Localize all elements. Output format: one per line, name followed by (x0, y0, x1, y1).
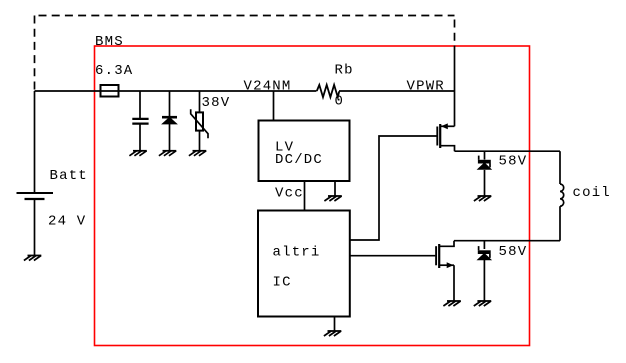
inductor L1 coil (560, 151, 564, 241)
capacitor C1 wire top (139, 91, 141, 118)
wire altri ground pin (334, 317, 336, 332)
zener diode D3 wire bottom (483, 259, 485, 301)
svg-text:58V: 58V (499, 154, 528, 170)
wire VPWR vertical (454, 46, 456, 127)
svg-text:38V: 38V (202, 95, 231, 111)
ground capacitor (129, 151, 146, 156)
wire Vcc pin (304, 181, 306, 211)
ground Q2 source (443, 301, 460, 306)
transistor Q2 (N-MOSFET) (436, 241, 454, 268)
zener diode D3 wire top (483, 241, 485, 249)
svg-text:VPWR: VPWR (407, 79, 445, 95)
ground varistor (189, 151, 206, 156)
transistor Q1 (P-MOSFET) (437, 123, 454, 151)
fuse F1 (101, 85, 119, 97)
ground LV DC/DC (324, 196, 341, 201)
BMS boundary box (95, 46, 530, 346)
svg-text:Rb: Rb (335, 63, 354, 79)
wire Q1 drain to coil node (455, 150, 561, 152)
IC box U2 altri IC (258, 211, 350, 317)
op-amp box U1 LV DC/DC (259, 121, 350, 182)
capacitor C1 wire bottom (139, 124, 141, 151)
diode D1 wire top (169, 91, 171, 117)
varistor RV1 (191, 109, 208, 138)
svg-text:altri: altri (273, 245, 321, 261)
ground altri IC (324, 331, 341, 336)
wire main bus (35, 90, 317, 92)
battery wire top (34, 91, 36, 193)
resistor Rb (317, 85, 339, 97)
svg-text:IC: IC (273, 275, 292, 291)
ground battery (24, 256, 41, 261)
wire V24NM to LV box (273, 91, 275, 121)
wire LV ground pin (334, 181, 336, 196)
svg-text:24 V: 24 V (48, 214, 86, 230)
diode D1 wire bottom (169, 124, 171, 151)
ground zener D3 (474, 301, 491, 306)
wire Q2 source to ground (453, 265, 455, 301)
wire coil bottom to Q2 drain (454, 240, 560, 242)
zener diode D2 wire top (484, 151, 486, 159)
zener diode D3 (478, 246, 492, 260)
svg-text:V24NM: V24NM (244, 79, 292, 95)
capacitor C1 (132, 119, 148, 124)
svg-text:0: 0 (335, 94, 345, 110)
dashed boundary top (35, 15, 455, 17)
svg-text:6.3A: 6.3A (95, 63, 133, 79)
dashed boundary right (454, 16, 456, 46)
svg-text:coil: coil (573, 185, 611, 201)
svg-text:58V: 58V (499, 244, 528, 260)
wire altri pin to Q2 gate (350, 255, 436, 257)
svg-text:BMS: BMS (95, 34, 124, 50)
battery BT1 (17, 193, 54, 199)
svg-text:Vcc: Vcc (275, 186, 304, 202)
battery wire bottom (34, 199, 36, 256)
svg-text:DC/DC: DC/DC (275, 152, 323, 168)
varistor RV1 wire top (199, 91, 201, 112)
varistor RV1 wire bottom (199, 131, 201, 151)
ground zener D2 (474, 196, 491, 201)
dashed boundary left (34, 16, 36, 92)
wire altri pin to Q1 gate (350, 136, 437, 240)
diode D1 (162, 117, 177, 124)
zener diode D2 (478, 156, 492, 170)
zener diode D2 wire bottom (484, 170, 486, 196)
wire bus after resistor (339, 90, 455, 92)
svg-text:Batt: Batt (50, 168, 88, 184)
ground diode (159, 151, 176, 156)
